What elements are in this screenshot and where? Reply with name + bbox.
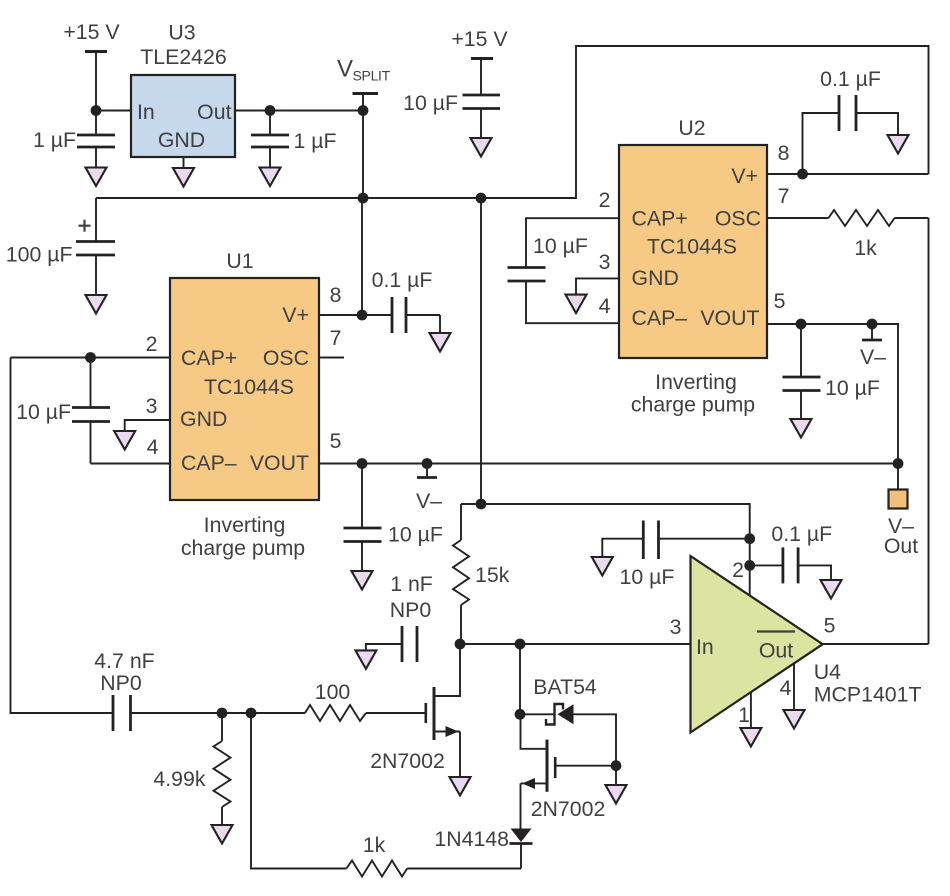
- svg-text:1 µF: 1 µF: [33, 128, 76, 152]
- svg-text:GND: GND: [180, 407, 227, 431]
- capacitor C 10uF (U2 output): [783, 324, 880, 419]
- supply +15V (reservoir): [451, 27, 508, 59]
- node U2 V+ bypass tap: [797, 169, 808, 180]
- svg-text:1k: 1k: [363, 833, 386, 857]
- svg-text:2N7002: 2N7002: [531, 797, 606, 821]
- svg-text:CAP–: CAP–: [632, 306, 688, 330]
- node U3 Out: [265, 105, 276, 116]
- svg-text:+15 V: +15 V: [451, 27, 508, 51]
- svg-text:10 µF: 10 µF: [16, 400, 71, 424]
- wire U1 CAP+: [11, 357, 171, 359]
- svg-text:100 µF: 100 µF: [6, 243, 73, 267]
- svg-text:3: 3: [146, 394, 158, 418]
- wire Q2 gate to ground: [615, 766, 617, 785]
- terminal V- Out: [884, 490, 918, 559]
- capacitor C 0.1uF (U2 bypass): [803, 67, 899, 174]
- regulator U3 TLE2426: [131, 21, 235, 158]
- ground (output 1uF): [260, 168, 281, 187]
- resistor R 1k (bottom): [251, 713, 521, 877]
- svg-text:NP0: NP0: [390, 598, 432, 622]
- svg-text:2: 2: [146, 332, 158, 356]
- svg-text:0.1 µF: 0.1 µF: [771, 522, 832, 546]
- svg-text:In: In: [137, 100, 155, 124]
- wire VSPLIT stub: [362, 94, 364, 199]
- ground (U2 GND): [566, 295, 587, 314]
- node Vsplit bus / V+ feed U1: [358, 193, 369, 204]
- label U4 name: [814, 660, 922, 707]
- node U4 pin2 upper: [744, 533, 755, 544]
- svg-text:SPLIT: SPLIT: [353, 68, 391, 84]
- svg-text:3: 3: [599, 250, 611, 274]
- svg-text:U1: U1: [226, 249, 253, 273]
- wire U2 VOUT to V- bus: [767, 324, 898, 464]
- wire U4 pin 1: [750, 692, 752, 728]
- node U3 In: [91, 105, 102, 116]
- ground (U4 10uF): [592, 557, 613, 576]
- wire U4 pin 2: [749, 539, 751, 596]
- svg-text:2: 2: [732, 558, 744, 582]
- capacitor C 10uF (U1 output): [344, 464, 443, 572]
- resistor R 15k: [453, 504, 510, 644]
- resistor R 4.99k: [153, 713, 230, 825]
- svg-text:GND: GND: [158, 128, 205, 152]
- svg-text:Out: Out: [884, 534, 918, 558]
- node U4 pin2 bypass tap: [744, 560, 755, 571]
- svg-text:10 µF: 10 µF: [620, 565, 675, 589]
- svg-text:OSC: OSC: [263, 346, 309, 370]
- ground (1nF): [355, 650, 376, 669]
- svg-text:VOUT: VOUT: [700, 306, 759, 330]
- terminal V- (U2): [860, 324, 886, 369]
- wire left feedback drop: [11, 358, 114, 714]
- svg-text:0.1 µF: 0.1 µF: [372, 268, 433, 292]
- svg-text:10 µF: 10 µF: [825, 376, 880, 400]
- ground (input 1uF): [86, 168, 107, 187]
- charge pump U1 TC1044S: [170, 249, 319, 500]
- wire U1 VOUT / V- bus: [319, 463, 898, 465]
- diode D BAT54: [520, 675, 616, 766]
- node bottom loop tap: [246, 708, 257, 719]
- svg-text:4: 4: [147, 435, 159, 459]
- svg-text:U2: U2: [678, 116, 705, 140]
- wire U1 OSC stub: [319, 357, 344, 359]
- node Q2 gate / BAT54 anode: [611, 760, 622, 771]
- capacitor C 1uF (output): [251, 111, 337, 168]
- svg-text:100: 100: [315, 680, 351, 704]
- wire V+ feed from Vsplit bus: [361, 198, 363, 315]
- svg-text:V+: V+: [731, 164, 758, 188]
- driver U4 MCP1401T: [691, 556, 823, 733]
- ground (Q1 source): [450, 777, 471, 796]
- svg-text:10 µF: 10 µF: [533, 234, 588, 258]
- wire BAT54 branch: [519, 644, 521, 714]
- svg-text:10 µF: 10 µF: [403, 91, 458, 115]
- ground (Q2 gate): [606, 785, 627, 804]
- wire U1 V+: [319, 314, 362, 316]
- node Q2 drain / BAT54: [515, 709, 526, 720]
- svg-text:charge pump: charge pump: [181, 536, 305, 560]
- capacitor C 0.1uF (U4 bypass): [750, 522, 833, 583]
- svg-text:4: 4: [780, 676, 792, 700]
- svg-text:GND: GND: [632, 266, 679, 290]
- node In / BAT54 branch: [515, 639, 526, 650]
- wire U1 CAP-: [91, 463, 171, 465]
- svg-text:TC1044S: TC1044S: [647, 235, 737, 259]
- node U2 VOUT 10uF tap: [796, 319, 807, 330]
- capacitor C 4.7nF NP0: [94, 649, 305, 731]
- wire +15V to In node: [95, 52, 97, 111]
- node U1 V+: [357, 310, 368, 321]
- svg-text:4.7 nF: 4.7 nF: [94, 649, 154, 673]
- node U1 CAP+ / flying cap: [85, 352, 96, 363]
- svg-text:+15 V: +15 V: [63, 20, 120, 44]
- svg-text:Inverting: Inverting: [655, 370, 737, 394]
- ground (U3 GND): [173, 168, 194, 187]
- wire OSC to U4 output: [928, 218, 930, 644]
- svg-text:V–: V–: [416, 489, 442, 513]
- capacitor C 10uF (U1 flying): [16, 358, 110, 464]
- svg-text:V: V: [337, 56, 353, 83]
- charge pump U2 TC1044S: [619, 116, 767, 358]
- wire In node to U3: [96, 110, 131, 112]
- wire U2 V+: [767, 173, 929, 175]
- node 4.99k tap: [217, 708, 228, 719]
- svg-text:TLE2426: TLE2426: [140, 45, 226, 69]
- svg-text:2: 2: [599, 188, 611, 212]
- svg-text:TC1044S: TC1044S: [204, 375, 294, 399]
- node Vsplit bus / U4 branch: [476, 193, 487, 204]
- svg-text:CAP+: CAP+: [181, 346, 237, 370]
- svg-text:1 µF: 1 µF: [294, 129, 337, 153]
- svg-text:2N7002: 2N7002: [370, 749, 445, 773]
- ground (U4 pin 1): [740, 728, 761, 747]
- svg-text:1k: 1k: [854, 236, 877, 260]
- node V- 10uF tap: [357, 458, 368, 469]
- wire U3 GND pin: [183, 157, 185, 168]
- ground (+15V 10uF): [471, 138, 492, 157]
- capacitor C 1nF NP0: [366, 572, 433, 662]
- wire supply run to U4 pin 2: [461, 504, 750, 539]
- svg-text:15k: 15k: [475, 563, 510, 587]
- wire U4 pin 4: [793, 663, 795, 710]
- capacitor C 10uF (+15V reservoir): [403, 59, 500, 139]
- capacitor C 10uF (U2 flying): [508, 218, 620, 323]
- capacitor C 0.1uF (U1 bypass): [362, 268, 440, 333]
- capacitor C 10uF (U4 supply): [602, 521, 749, 590]
- svg-text:MCP1401T: MCP1401T: [814, 683, 922, 707]
- diode D 1N4148: [434, 827, 532, 869]
- node U2 V- label tap: [867, 319, 878, 330]
- wire to V- Out terminal: [897, 464, 899, 491]
- node V- bus junction: [893, 458, 904, 469]
- wire In node: [460, 643, 691, 645]
- svg-text:5: 5: [824, 614, 836, 638]
- svg-text:V–: V–: [860, 345, 886, 369]
- svg-text:Out: Out: [197, 100, 231, 124]
- svg-text:3: 3: [670, 615, 682, 639]
- svg-text:BAT54: BAT54: [533, 675, 597, 699]
- svg-text:CAP–: CAP–: [181, 451, 237, 475]
- transistor Q2 2N7002: [521, 714, 617, 828]
- capacitor C 100uF (Vsplit): [6, 198, 115, 295]
- svg-text:5: 5: [774, 289, 786, 313]
- svg-text:V+: V+: [282, 303, 309, 327]
- ground (4.99k): [212, 825, 233, 844]
- svg-text:U3: U3: [168, 21, 195, 45]
- node 15k / U4 supply: [476, 499, 487, 510]
- resistor R 1k (OSC): [767, 210, 929, 260]
- svg-text:10 µF: 10 µF: [388, 523, 443, 547]
- svg-text:charge pump: charge pump: [631, 393, 755, 417]
- wire U4 output: [823, 643, 929, 645]
- svg-text:5: 5: [330, 429, 342, 453]
- svg-text:4: 4: [599, 294, 611, 318]
- ground (U4 bypass cap): [821, 580, 842, 599]
- svg-text:7: 7: [778, 184, 790, 208]
- wire U2 GND: [576, 278, 619, 294]
- terminal V- (U1): [416, 464, 442, 514]
- svg-text:CAP+: CAP+: [632, 207, 688, 231]
- svg-text:1 nF: 1 nF: [390, 572, 433, 596]
- svg-text:8: 8: [330, 283, 342, 307]
- wire Vsplit branch down to U4: [480, 198, 482, 504]
- node VSPLIT on Out wire: [358, 105, 369, 116]
- ground (100uF): [86, 295, 107, 314]
- svg-text:Out: Out: [759, 639, 793, 663]
- ground (U2 bypass cap): [888, 135, 909, 154]
- svg-text:4.99k: 4.99k: [153, 767, 205, 791]
- label U1 caption: [181, 513, 305, 560]
- ground (U2 output 10uF): [791, 419, 812, 438]
- svg-text:U4: U4: [814, 660, 841, 684]
- svg-text:In: In: [696, 635, 714, 659]
- ground (U1 GND): [114, 431, 135, 450]
- svg-text:VOUT: VOUT: [250, 451, 309, 475]
- svg-text:OSC: OSC: [715, 207, 761, 231]
- capacitor C 1uF (input): [33, 111, 115, 168]
- label U2 caption: [631, 370, 755, 417]
- wire U3 Out to Vsplit: [235, 110, 363, 112]
- node In / 15k / Q1 drain: [455, 639, 466, 650]
- wire Vsplit bus: [96, 46, 929, 198]
- ground (U4 pin 4): [784, 710, 805, 729]
- svg-text:1: 1: [738, 703, 750, 727]
- ground (U1 bypass cap): [430, 333, 451, 352]
- supply +15V (U3 input): [63, 20, 120, 52]
- svg-text:1N4148: 1N4148: [434, 827, 509, 851]
- svg-text:0.1 µF: 0.1 µF: [820, 67, 881, 91]
- node V- label tap: [422, 458, 433, 469]
- transistor Q1 2N7002: [370, 644, 460, 777]
- svg-text:8: 8: [778, 141, 790, 165]
- node VSPLIT terminal: [337, 56, 391, 94]
- ground (U1 output 10uF): [352, 571, 373, 590]
- svg-text:NP0: NP0: [100, 671, 142, 695]
- svg-text:7: 7: [330, 326, 342, 350]
- wire U1 GND: [125, 420, 170, 431]
- svg-text:Inverting: Inverting: [204, 513, 286, 537]
- resistor R 100: [305, 680, 425, 721]
